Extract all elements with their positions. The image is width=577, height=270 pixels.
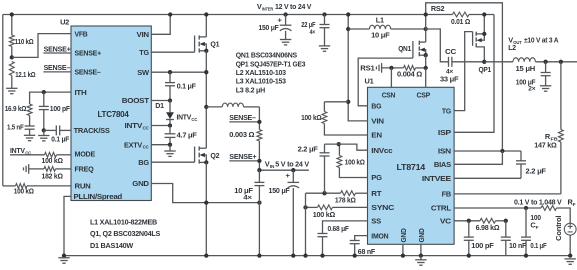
capacitor CF 0.1 uF: [521, 208, 547, 256]
svg-text:D1 BAS140W: D1 BAS140W: [90, 241, 133, 250]
ground bottom left: [58, 257, 69, 259]
svg-text:LTC7804: LTC7804: [98, 110, 130, 119]
wire SENSE- stub mid: [229, 113, 261, 124]
svg-text:CC: CC: [143, 145, 150, 150]
wire output node to L2: [484, 61, 513, 63]
svg-text:PG: PG: [371, 173, 382, 182]
node SS cap rail: [320, 253, 324, 257]
wire SW: [151, 71, 206, 73]
svg-text:GND: GND: [399, 228, 408, 242]
capacitor CC 4x33uF: [440, 47, 484, 83]
svg-text:Q1: Q1: [210, 40, 219, 49]
net label INTVcc at D1: [177, 113, 199, 123]
svg-text:SENSE+: SENSE+: [229, 152, 257, 161]
wire BOOST: [151, 100, 170, 102]
label 0.1V to 1.048V and Rf: [514, 198, 576, 208]
node 100pF rail: [467, 253, 471, 257]
svg-text:+: +: [285, 171, 290, 180]
capacitor 2.2 uF INVcc: [298, 144, 330, 193]
capacitor 10 nF: [501, 221, 527, 256]
svg-text:ITH: ITH: [75, 88, 87, 97]
svg-text:EXTV: EXTV: [124, 140, 142, 149]
wire sense chain upper: [258, 107, 260, 130]
svg-text:INTER: INTER: [262, 6, 274, 11]
svg-text:PLLIN/Spread: PLLIN/Spread: [74, 192, 123, 201]
transistor Q2: [195, 146, 220, 163]
wire IMON: [355, 236, 368, 241]
svg-text:QP1: QP1: [479, 65, 492, 74]
node bottom rail left: [62, 253, 66, 257]
wire left edge to RUN: [2, 15, 4, 186]
svg-text:SW: SW: [137, 68, 149, 77]
svg-text:0.1 V to 1.048 V: 0.1 V to 1.048 V: [514, 198, 562, 207]
svg-text:CC: CC: [143, 125, 150, 130]
resistor RF 100: [530, 206, 570, 230]
label VOUT: [508, 36, 559, 53]
svg-text:68 nF: 68 nF: [358, 247, 376, 256]
resistor 110 k-ohm: [9, 15, 33, 58]
svg-text:BG: BG: [371, 102, 382, 111]
label VIN 5V to 24V: [265, 159, 309, 168]
wire SS: [323, 221, 368, 234]
svg-text:U2: U2: [60, 17, 69, 26]
svg-text:TG: TG: [139, 48, 149, 57]
svg-text:GND: GND: [132, 179, 149, 188]
wire bottom ground rail: [64, 255, 570, 257]
svg-text:100 kΩ: 100 kΩ: [42, 156, 63, 165]
inductor L1: [348, 15, 426, 39]
wire VC: [454, 220, 480, 222]
ground sideways RS1: [381, 63, 383, 73]
svg-text:0.003 Ω: 0.003 Ω: [229, 130, 254, 139]
svg-text:GND: GND: [417, 228, 426, 242]
svg-text:0.1 μF: 0.1 μF: [530, 241, 547, 250]
svg-text:147 kΩ: 147 kΩ: [534, 140, 557, 149]
capacitor 100 uF output 2x: [516, 62, 551, 93]
wire QN1 drain to CC: [426, 29, 449, 62]
wire rail right of RS2: [469, 14, 494, 16]
svg-text:L1: L1: [376, 15, 384, 24]
svg-text:ISP: ISP: [438, 128, 452, 137]
node 10uF rail: [257, 253, 261, 257]
inductor L3: [206, 103, 259, 107]
svg-text:F: F: [573, 202, 576, 207]
wire CSN loop over RS2: [426, 3, 503, 151]
svg-text:SENSE+: SENSE+: [75, 49, 102, 58]
wire FB: [454, 193, 561, 195]
wire BG to Q2 gate: [151, 161, 194, 163]
IC U1 LT8714 box: [368, 87, 455, 244]
ground bottom right: [565, 258, 576, 260]
svg-text:SENSE–: SENSE–: [44, 63, 71, 72]
wire top VINTER rail: [3, 14, 453, 16]
node GND crossings: [204, 200, 208, 204]
svg-text:4.7 μF: 4.7 μF: [177, 131, 198, 140]
node 68nF rail: [353, 253, 357, 257]
text parts list lower: [90, 217, 160, 250]
net label INTVcc at MODE: [10, 146, 32, 156]
node SYNC ground column: [303, 205, 307, 209]
node VOUT caps: [543, 60, 547, 64]
node QP1 source: [482, 32, 486, 36]
diode D1: [155, 101, 174, 126]
capacitor 0.1 uF TRACK/SS: [44, 125, 71, 143]
svg-text:VFB: VFB: [75, 29, 88, 38]
node VFB divider junction: [10, 55, 14, 59]
resistor RFB 147 k-ohm: [534, 62, 563, 194]
node switch to L3: [204, 105, 208, 109]
ground below 150uF: [280, 39, 291, 41]
capacitor 150 uF VINTER: [259, 15, 292, 40]
IC U2 LTC7804 box: [71, 26, 151, 201]
svg-text:16.9 kΩ: 16.9 kΩ: [5, 104, 27, 113]
source Control: [554, 216, 576, 256]
node QN1 source: [424, 53, 428, 57]
wire ISN: [454, 150, 521, 152]
node riser rail: [346, 12, 350, 16]
wire ISP to RS2 right node: [454, 15, 494, 133]
node VC 100pF: [467, 219, 471, 223]
wire sense chain lower: [258, 141, 260, 170]
ground below LT8714: [415, 256, 426, 266]
svg-text:12.1 kΩ: 12.1 kΩ: [15, 70, 35, 79]
wire VIN pin to rail: [151, 15, 170, 35]
svg-text:INTVEE: INTVEE: [422, 174, 452, 183]
wire ITH: [30, 92, 71, 104]
svg-text:D1: D1: [155, 101, 164, 110]
svg-text:LT8714: LT8714: [397, 163, 426, 172]
svg-text:5 V to 24 V: 5 V to 24 V: [275, 159, 309, 168]
wire QN1 source to RS1: [425, 55, 427, 68]
transistor Q1: [195, 15, 220, 53]
node CSP: [424, 66, 428, 70]
node rail 110k: [10, 12, 14, 16]
svg-text:SENSE+: SENSE+: [44, 44, 72, 53]
svg-text:INVcc: INVcc: [371, 146, 392, 155]
capacitor 150 uF input: [269, 170, 300, 255]
node control rail: [568, 253, 572, 257]
svg-text:2.2 μF: 2.2 μF: [298, 144, 319, 153]
resistor 100 k-ohm VIN-EN: [301, 102, 367, 135]
capacitor 68 nF: [350, 241, 376, 257]
svg-text:IN: IN: [270, 164, 275, 169]
svg-text:RT: RT: [371, 189, 382, 198]
svg-text:178 kΩ: 178 kΩ: [335, 196, 356, 205]
wire PLLIN/Spread to ground rail: [64, 196, 71, 255]
resistor 16.9 k-ohm: [5, 104, 32, 126]
wire SENSE- stub with net label: [43, 63, 71, 72]
resistor 178 k-ohm RT: [306, 191, 368, 205]
node rail RS2 right: [482, 12, 486, 16]
node QN1 drain: [424, 27, 428, 31]
resistor 100 k-ohm INVcc-PG: [337, 144, 368, 177]
wire Q2 source to rail: [205, 162, 207, 255]
resistor 6.98 k-ohm: [476, 218, 506, 232]
svg-text:SENSE–: SENSE–: [229, 113, 256, 122]
capacitor 4.7 uF: [165, 126, 198, 145]
node VIN rail junctions: [257, 168, 261, 172]
node CSN: [389, 66, 393, 70]
svg-text:CSP: CSP: [417, 90, 431, 99]
svg-text:6.98 kΩ: 6.98 kΩ: [476, 223, 500, 232]
svg-text:0.004 Ω: 0.004 Ω: [397, 70, 422, 79]
svg-text:BOOST: BOOST: [122, 96, 150, 105]
capacitor 22 uF 4x: [301, 15, 329, 46]
node RT column rail: [303, 253, 307, 257]
svg-text:22 μF: 22 μF: [301, 20, 316, 29]
wire SENSE+ stub with net label: [43, 44, 71, 53]
wire INTVcc pin: [151, 125, 170, 127]
svg-text:SS: SS: [371, 217, 381, 226]
svg-text:0.01 Ω: 0.01 Ω: [451, 17, 470, 26]
svg-text:CTRL: CTRL: [431, 204, 452, 213]
svg-text:L3 XAL1010-153: L3 XAL1010-153: [236, 77, 286, 86]
svg-text:CC: CC: [445, 47, 457, 56]
node GND pins rail: [401, 253, 405, 257]
svg-text:BIAS: BIAS: [434, 160, 451, 169]
node 150uF rail: [291, 253, 295, 257]
text parts list upper: [236, 51, 306, 95]
wire CSP riser: [425, 68, 427, 87]
svg-text:QN1: QN1: [398, 44, 411, 53]
ground below output cap: [540, 85, 551, 87]
svg-text:INTV: INTV: [177, 113, 192, 122]
svg-text:2.2 μF: 2.2 μF: [526, 167, 547, 176]
svg-text:MODE: MODE: [75, 150, 96, 159]
node QP1 drain CC junction: [482, 60, 486, 64]
capacitor 100 pF VC: [464, 221, 495, 256]
svg-text:15 μH: 15 μH: [516, 64, 536, 73]
svg-text:100 kΩ: 100 kΩ: [345, 158, 365, 167]
wire CTRL: [454, 207, 541, 209]
wire VINTER riser to LT8714 VIN: [348, 15, 367, 121]
svg-text:INTV: INTV: [10, 146, 25, 155]
node VINTER: [283, 12, 287, 16]
wire GND pin path: [151, 184, 259, 203]
node CTRL cap junction: [524, 206, 528, 210]
svg-text:RS1: RS1: [360, 63, 374, 72]
svg-text:10 μF: 10 μF: [371, 31, 390, 40]
svg-text:FREQ: FREQ: [75, 165, 95, 174]
svg-text:0.1 μF: 0.1 μF: [177, 82, 197, 91]
svg-text:4×: 4×: [310, 29, 316, 36]
ground below 4.7uF: [164, 145, 175, 157]
svg-text:U1: U1: [365, 76, 374, 85]
wire EXTVcc pin: [151, 144, 170, 146]
svg-text:100 kΩ: 100 kΩ: [313, 210, 336, 219]
transistor QP1: [454, 15, 491, 111]
svg-text:TRACK/SS: TRACK/SS: [74, 126, 110, 135]
svg-text:±10 V at 3 A: ±10 V at 3 A: [524, 36, 559, 45]
node SW junctions: [204, 70, 208, 74]
resistor 12.1 k-ohm: [9, 62, 35, 89]
svg-text:QN1 BSC034N06NS: QN1 BSC034N06NS: [236, 51, 297, 60]
svg-text:4×: 4×: [243, 195, 252, 202]
svg-text:100 pF: 100 pF: [50, 104, 71, 113]
svg-text:L1 XAL1010-822MEB: L1 XAL1010-822MEB: [90, 217, 157, 226]
node INVcc junction: [337, 142, 341, 146]
wire LT8714 GND pins to rail: [402, 244, 404, 255]
svg-text:182 kΩ: 182 kΩ: [42, 171, 63, 180]
wire BIAS riser: [454, 151, 502, 164]
capacitor 100 pF: [39, 90, 71, 130]
node Q2 source: [204, 160, 208, 164]
svg-text:150 μF: 150 μF: [269, 186, 291, 195]
svg-text:2×: 2×: [528, 86, 535, 93]
svg-text:0.1 μF: 0.1 μF: [51, 134, 69, 143]
svg-text:SYNC: SYNC: [371, 203, 394, 212]
svg-text:L2: L2: [508, 43, 516, 52]
svg-text:IMON: IMON: [371, 231, 388, 240]
svg-text:Control: Control: [554, 216, 563, 241]
node 22uF rail: [322, 12, 326, 16]
wire VFB feedback: [12, 34, 71, 58]
ground below 1.5nF: [24, 134, 35, 136]
resistor 0.003 ohm: [229, 130, 261, 142]
svg-text:SENSE–: SENSE–: [75, 68, 101, 77]
node VIN riser rail: [168, 12, 172, 16]
ground sideways at FREQ: [28, 164, 30, 174]
svg-text:L2 XAL1510-103: L2 XAL1510-103: [236, 68, 286, 77]
svg-text:VIN: VIN: [137, 30, 149, 39]
wire CSN riser: [390, 68, 392, 87]
node TRACK junction: [42, 128, 46, 132]
svg-text:FB: FB: [442, 190, 451, 199]
wire switch node vertical: [205, 51, 207, 148]
svg-text:EN: EN: [371, 131, 382, 140]
svg-text:RS2: RS2: [431, 4, 445, 13]
svg-text:33 μF: 33 μF: [440, 75, 459, 84]
resistor RS1 0.004 ohm: [382, 66, 426, 79]
svg-text:VIN: VIN: [371, 117, 384, 126]
node CF rail: [524, 253, 528, 257]
wire BG to QN1 gate: [358, 58, 413, 106]
svg-text:L3 8.2 μH: L3 8.2 μH: [236, 85, 265, 94]
node VC 10nF: [504, 219, 508, 223]
resistor 100 k-ohm MODE: [10, 152, 71, 165]
capacitor 1.5 nF: [7, 123, 35, 136]
svg-text:F: F: [536, 225, 539, 230]
label VINTER 12V to 24V: [257, 2, 312, 12]
resistor 100 k-ohm RUN: [3, 184, 71, 196]
wire INVcc stair: [325, 144, 368, 150]
svg-text:100 kΩ: 100 kΩ: [301, 113, 322, 122]
wire SENSE+ stub mid: [229, 152, 261, 163]
capacitor 0.1 uF BOOST: [165, 72, 196, 100]
svg-text:BG: BG: [138, 158, 149, 167]
wire RT ground column: [305, 193, 307, 255]
svg-text:100 kΩ: 100 kΩ: [14, 187, 34, 196]
node BOOST junction: [168, 98, 172, 102]
resistor RS2 0.01 ohm: [431, 4, 470, 26]
resistor 182 k-ohm FREQ: [29, 167, 71, 181]
node ISN BIAS loop: [500, 149, 504, 153]
wire INTVEE: [454, 177, 521, 179]
wire VOUT rail: [535, 61, 577, 63]
ground below 12.1k: [6, 87, 17, 89]
svg-text:10 nF: 10 nF: [509, 241, 527, 250]
capacitor 0.68 uF: [318, 224, 350, 255]
svg-text:Q1, Q2 BSC032N04LS: Q1, Q2 BSC032N04LS: [90, 229, 160, 238]
ground below TRACK junction: [38, 130, 49, 141]
ground below 22uF: [319, 45, 330, 47]
resistor 100 k-ohm SYNC: [306, 205, 368, 219]
svg-text:CC: CC: [191, 117, 198, 122]
svg-text:VC: VC: [440, 217, 451, 226]
node loop rail crossing: [424, 12, 428, 16]
svg-text:Q2: Q2: [210, 151, 219, 160]
svg-text:110 kΩ: 110 kΩ: [15, 37, 34, 46]
svg-text:1.5 nF: 1.5 nF: [7, 123, 24, 132]
wire VIN input rail: [259, 169, 309, 171]
node RT 2.2uF junction: [322, 191, 326, 195]
svg-text:ISN: ISN: [438, 147, 451, 156]
svg-text:RUN: RUN: [75, 182, 91, 191]
svg-text:TG: TG: [442, 106, 452, 115]
svg-text:0.68 μF: 0.68 μF: [328, 224, 350, 233]
node Q1 drain rail: [204, 12, 208, 16]
svg-text:INTV: INTV: [125, 121, 143, 130]
transistor QN1: [398, 29, 426, 58]
node Q1 source: [204, 49, 208, 53]
capacitor 10 uF 4x: [234, 170, 264, 255]
capacitor 2.2 uF ISN-INTVEE: [516, 151, 547, 178]
svg-text:150 μF: 150 μF: [259, 23, 280, 32]
svg-text:CSN: CSN: [382, 90, 396, 99]
inductor L2: [513, 58, 535, 73]
wire TG to Q1 gate: [151, 51, 194, 53]
svg-text:12 V to 24 V: 12 V to 24 V: [275, 2, 311, 11]
svg-text:100 pF: 100 pF: [471, 241, 494, 250]
